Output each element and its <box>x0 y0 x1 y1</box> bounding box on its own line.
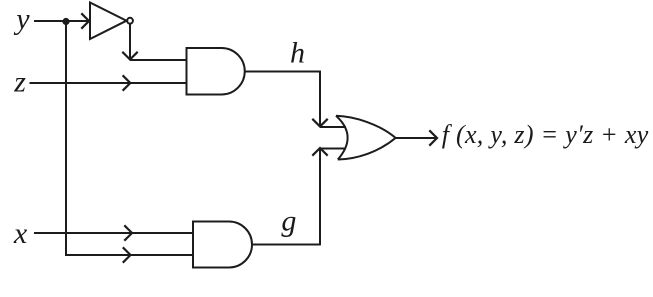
wire OR top input stub <box>320 126 346 128</box>
OR gate O1 <box>336 116 396 160</box>
wire g from AND2 output <box>252 244 321 246</box>
wire y branch vertical <box>66 22 194 256</box>
arrowhead up into OR bottom input <box>312 148 327 156</box>
wire x input <box>34 232 194 234</box>
AND gate A1 <box>187 48 245 95</box>
wire OR bottom input stub <box>320 148 346 150</box>
arrowhead down into OR top input <box>312 119 327 127</box>
wire g vertical up <box>319 149 321 245</box>
NOT gate U1 triangle <box>90 3 127 40</box>
wire OR output <box>396 137 438 139</box>
svg-text:g: g <box>281 204 296 237</box>
arrowhead on z wire <box>123 75 131 90</box>
arrowhead on x wire <box>124 225 132 240</box>
junction dot on y <box>62 18 69 25</box>
svg-text:y: y <box>13 2 30 35</box>
NOT gate bubble <box>127 18 133 24</box>
wire z input <box>30 82 188 84</box>
svg-text:f (x, y, z) = y′z + xy: f (x, y, z) = y′z + xy <box>442 120 649 149</box>
arrowhead on y branch wire <box>123 247 131 262</box>
AND gate A2 <box>193 222 252 268</box>
arrowhead on output <box>429 130 437 145</box>
wire NOT output down <box>129 24 131 60</box>
arrowhead into NOT gate <box>81 13 89 28</box>
svg-text:z: z <box>13 66 26 99</box>
arrowhead down into AND1 top input wire <box>122 52 137 60</box>
svg-text:h: h <box>290 36 305 69</box>
wire h from AND1 output <box>245 72 320 127</box>
wire NOT output to AND1 <box>130 59 187 61</box>
wire y input <box>34 20 89 22</box>
svg-text:x: x <box>13 217 28 250</box>
